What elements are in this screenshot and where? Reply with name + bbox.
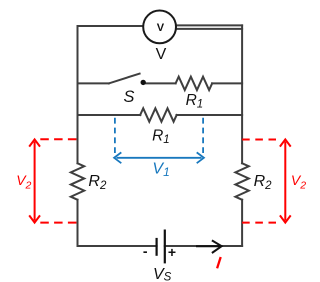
svg-text:R2: R2: [254, 173, 273, 192]
svg-text:V2: V2: [16, 172, 31, 192]
svg-text:R1: R1: [186, 92, 204, 111]
svg-text:V: V: [157, 22, 165, 34]
svg-text:V2: V2: [291, 172, 306, 192]
svg-text:R2: R2: [88, 173, 107, 192]
svg-text:-: -: [143, 243, 148, 259]
svg-text:S: S: [124, 88, 135, 106]
svg-text:VS: VS: [153, 266, 172, 282]
svg-text:V: V: [156, 46, 167, 63]
svg-text:V1: V1: [152, 161, 169, 179]
svg-text:R1: R1: [152, 127, 170, 146]
svg-text:+: +: [168, 244, 176, 260]
